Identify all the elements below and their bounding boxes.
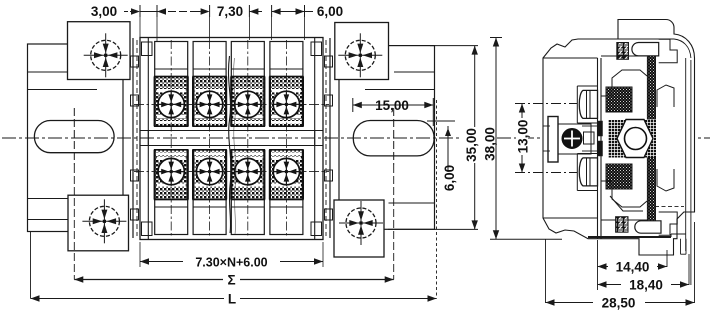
centerline front view (2, 137, 460, 139)
oval vertical centerline upper right (393, 108, 395, 165)
side hatched contact strip (647, 56, 655, 223)
dimension 15,00 on right oval (352, 98, 354, 112)
svg-text:18,40: 18,40 (629, 278, 663, 293)
side bottom-right step lines (655, 206, 684, 208)
dimension 7.30xN+6.00 bottom (139, 242, 141, 267)
break line second (233, 58, 236, 234)
terminal cell pole 4 upper (270, 42, 303, 127)
dimension 35,00 vertical (430, 45, 478, 47)
right junction tab lower (325, 95, 333, 106)
left top screw box (68, 22, 131, 80)
flange screw bottom-right (339, 201, 383, 245)
pole 1 vertical centerline (170, 40, 172, 237)
side hatched insert top (617, 43, 629, 60)
right junction tab lower2 (325, 170, 333, 181)
block top-right corner tab (311, 42, 322, 56)
right mounting flange plate (339, 46, 435, 230)
terminal cell pole 4 lower (270, 150, 303, 235)
side clamp fork upper (576, 86, 578, 123)
right junction tab upper (325, 56, 333, 67)
side slot bottom (635, 221, 661, 233)
screw row centerline lower (134, 171, 329, 173)
terminal cell pole 3 lower (231, 150, 264, 235)
svg-text:3,00: 3,00 (91, 4, 117, 19)
right bottom screw box (334, 200, 384, 257)
side hex nut stipple surround (608, 120, 656, 158)
svg-text:15,00: 15,00 (375, 98, 409, 113)
left flange lower step line (28, 198, 75, 200)
side clamp screw lower (579, 158, 597, 186)
svg-text:14,40: 14,40 (616, 260, 650, 275)
side bottom inner edge (588, 236, 671, 238)
right junction column (329, 38, 331, 238)
pole 3 vertical centerline (247, 40, 249, 237)
block middle band lower line (148, 145, 314, 147)
right flange oval mounting slot (353, 121, 434, 156)
dimension 28,50 bottom side (545, 240, 547, 304)
pole 4 vertical centerline (285, 40, 287, 237)
svg-text:6,00: 6,00 (317, 4, 343, 19)
side shelf line lower mid (601, 219, 647, 221)
terminal cell pole 2 lower (193, 150, 226, 235)
svg-text:L: L (228, 292, 236, 307)
side bracket upper (657, 85, 674, 107)
svg-text:38,00: 38,00 (483, 127, 498, 161)
side wall line B (600, 58, 602, 239)
svg-text:35,00: 35,00 (464, 128, 479, 162)
dimension 13,00 side (515, 103, 577, 105)
flange screw top-left (84, 33, 128, 77)
side stipple block lower (606, 164, 632, 189)
left mounting flange plate (28, 44, 124, 232)
left flange upper step line (28, 71, 69, 73)
side diagonal lower-left (610, 196, 643, 211)
terminal cell pole 3 upper (231, 42, 264, 127)
terminal cell pole 1 upper (155, 42, 188, 127)
side rail screw (562, 129, 582, 149)
dimension 7,30 top middle (209, 5, 211, 17)
extension 3,00 right (156, 17, 158, 41)
left junction tab bottom (131, 209, 139, 220)
side mid-wall dark segment lower (598, 141, 603, 156)
right flange lower step line (389, 202, 435, 204)
sigma extension right (393, 165, 395, 280)
left junction column (132, 38, 134, 238)
svg-text:6,00: 6,00 (442, 165, 457, 191)
side internal steps upper (601, 70, 647, 96)
terminal cell pole 1 lower (155, 150, 188, 235)
extension 3,00 left (139, 17, 141, 40)
side rail screw yoke plate (548, 117, 558, 163)
side inner vertical right B (690, 60, 692, 285)
right flange shelf line (365, 89, 435, 91)
block middle band upper line (148, 130, 314, 132)
centerline side view (497, 137, 710, 139)
side hatched insert bottom (616, 217, 628, 233)
right flange upper step line (394, 71, 435, 73)
svg-text:7.30×N+6.00: 7.30×N+6.00 (195, 256, 267, 270)
L extension left (30, 232, 32, 299)
side stipple block upper (606, 87, 632, 112)
side hook bottom (659, 212, 678, 235)
side clamp fork lower (576, 154, 578, 191)
block right inner wall (314, 38, 316, 240)
dimension 6,00 top right (271, 5, 273, 17)
side shelf line upper mid (601, 55, 647, 57)
right junction tab bottom (325, 209, 333, 220)
block top-left corner tab (142, 42, 153, 56)
block bottom-left corner tab (142, 222, 153, 236)
terminal block body outline (140, 38, 323, 240)
side slot top (632, 43, 659, 56)
side hex nut (617, 120, 653, 158)
side rail screw inner box (584, 132, 595, 144)
block left inner wall (147, 38, 149, 240)
dimension 18,40 bottom side (688, 254, 690, 285)
dimension 6,00 right oval offset (427, 120, 455, 122)
block middle-right tab (315, 131, 323, 146)
svg-text:13,00: 13,00 (516, 120, 531, 154)
side left column lines (543, 125, 550, 127)
left flange shelf line (28, 89, 98, 91)
svg-text:28,50: 28,50 (602, 296, 636, 311)
left junction tab lower (131, 95, 139, 106)
screw row centerline upper (134, 103, 329, 105)
side inner vertical right A (685, 58, 687, 251)
side bracket lower (657, 169, 674, 191)
left bottom screw box (68, 195, 129, 251)
oval vertical centerline upper (73, 108, 75, 165)
L extension right (436, 100, 438, 299)
left flange step vertical (73, 199, 75, 220)
side inner curve top right (674, 39, 691, 58)
dimension 38,00 vertical (490, 37, 502, 39)
flange screw top-right (338, 33, 382, 77)
svg-text:Σ: Σ (227, 273, 235, 288)
side clamp screw upper (579, 90, 597, 118)
side shelf top (543, 57, 598, 59)
left junction tab upper (131, 56, 139, 67)
block bottom-right corner tab (311, 222, 322, 236)
left junction tab lower2 (131, 170, 139, 181)
block middle-left tab (140, 131, 148, 146)
left flange oval mounting slot (34, 121, 114, 153)
side shelf bottom (543, 217, 598, 219)
side body edge under top tab (618, 38, 674, 40)
left flange lower edge line (28, 219, 75, 221)
side rail screw housing (558, 124, 591, 154)
terminal cell pole 2 upper (193, 42, 226, 127)
side hook top (659, 39, 678, 63)
side top inner edge (601, 38, 618, 40)
side view outer profile (543, 20, 695, 256)
right top screw box (335, 23, 389, 80)
dimension 14,40 bottom side (597, 240, 599, 290)
side internal steps lower (601, 181, 647, 207)
side mid-wall dark segment upper (598, 121, 603, 136)
pole 2 vertical centerline (209, 40, 211, 237)
svg-text:7,30: 7,30 (217, 4, 243, 19)
break line (N poles) (228, 56, 231, 233)
flange screw bottom-left (82, 199, 126, 243)
side wall line A (597, 58, 599, 239)
sigma extension left (73, 165, 75, 280)
